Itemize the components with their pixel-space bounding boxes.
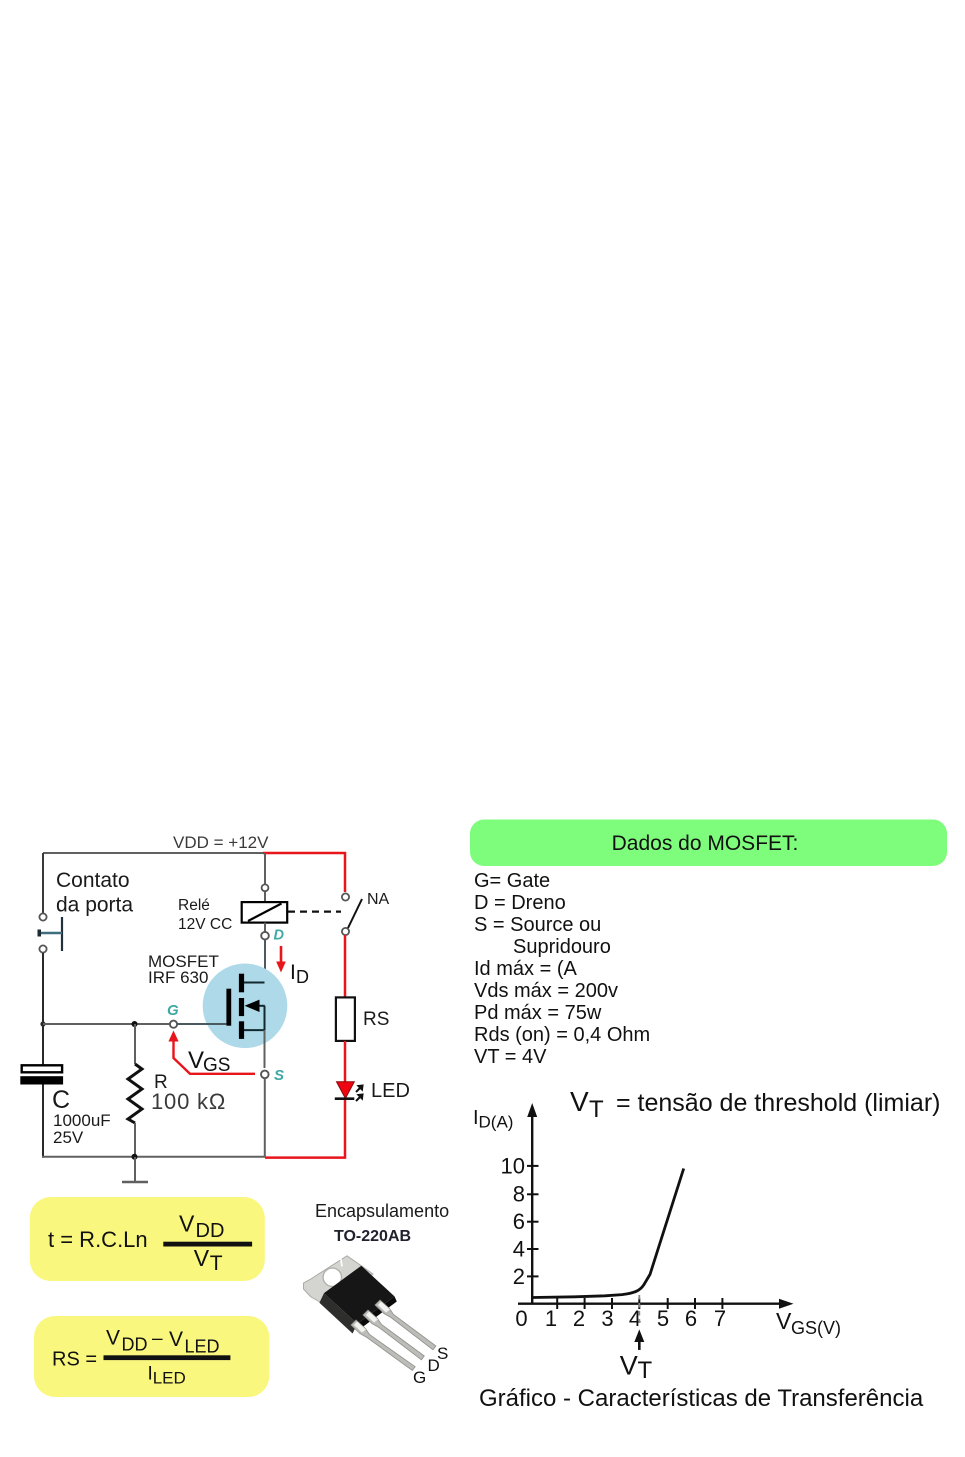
wire source down [264,1030,266,1068]
junction gate wire on left rail [40,1021,45,1026]
svg-text:S: S [274,1067,284,1084]
arrow VT up [634,1329,644,1350]
svg-text:VDD = +12V: VDD = +12V [173,833,269,852]
svg-text:Id máx = (A: Id máx = (A [474,958,577,980]
svg-text:TO-220AB: TO-220AB [334,1228,411,1245]
wire bottom red [265,1098,345,1158]
dashed threshold line [638,1295,640,1323]
svg-text:G: G [413,1368,426,1387]
wire D to mosfet drain [264,940,266,983]
svg-text:V: V [776,1308,792,1334]
mosfet data list [474,870,650,1068]
wire left vertical upper [42,853,44,913]
svg-text:D(A): D(A) [479,1113,514,1132]
node G terminal [170,1021,177,1028]
svg-text:D: D [296,967,309,987]
formula t = R.C.Ln VDD/VT [48,1211,252,1276]
svg-text:t = R.C.Ln: t = R.C.Ln [48,1227,148,1252]
svg-text:I: I [290,961,296,984]
legs [351,1300,436,1371]
svg-text:Encapsulamento: Encapsulamento [315,1201,449,1221]
RS red wire from NA [344,935,347,998]
wire cap to bottom [42,1085,44,1158]
svg-text:V: V [179,1211,195,1237]
relay top terminal [262,884,269,891]
svg-text:2: 2 [573,1306,585,1331]
wire left vertical lower (switch to capacitor) [42,953,44,1066]
relay coil K1 [242,902,288,923]
svg-text:LED: LED [153,1369,186,1388]
svg-text:0: 0 [515,1306,527,1331]
junction R bottom [132,1154,138,1160]
svg-text:RS: RS [363,1009,389,1030]
LED D1 [335,1082,363,1101]
pushbutton switch (contato da porta) [38,913,63,952]
package TO-220AB drawing [304,1256,436,1371]
node D terminal [261,932,269,940]
capacitor C1 [20,1065,63,1084]
svg-text:10: 10 [501,1154,525,1179]
mosfet body circle [203,964,288,1049]
svg-text:Contato: Contato [56,869,130,892]
svg-text:C: C [52,1086,70,1114]
svg-text:7: 7 [714,1306,726,1331]
svg-text:2: 2 [513,1264,525,1289]
svg-text:3: 3 [601,1306,613,1331]
resistor RS [336,997,355,1041]
svg-text:G= Gate: G= Gate [474,870,550,892]
x tick labels [515,1306,726,1331]
svg-text:RS =: RS = [52,1348,97,1370]
wire gate horizontal [43,1023,170,1025]
svg-text:S = Source ou: S = Source ou [474,914,601,936]
wire top red [263,853,345,892]
svg-text:5: 5 [657,1306,669,1331]
banner Dados do MOSFET [470,820,947,867]
svg-text:V: V [188,1047,204,1074]
svg-text:V: V [194,1245,210,1271]
svg-text:Relé: Relé [178,897,210,914]
svg-text:12V CC: 12V CC [178,916,232,933]
junction R top [132,1021,138,1027]
resistor R zigzag [128,1024,142,1157]
svg-text:D = Dreno: D = Dreno [474,892,566,914]
transfer curve [533,1169,684,1298]
wire bottom gray [42,1156,266,1158]
svg-text:GS(V): GS(V) [791,1318,841,1338]
svg-text:Vds máx = 200v: Vds máx = 200v [474,980,618,1002]
NA contact [342,893,362,935]
svg-text:V: V [169,1328,183,1351]
svg-text:8: 8 [513,1182,525,1207]
svg-text:1: 1 [545,1306,557,1331]
svg-text:4: 4 [513,1237,525,1262]
svg-text:T: T [589,1096,604,1123]
formula box t [30,1197,265,1281]
svg-text:100 kΩ: 100 kΩ [151,1089,226,1114]
y axis [527,1103,537,1304]
relay wire from top rail [264,853,266,903]
svg-text:IRF 630: IRF 630 [148,968,208,987]
arrow VGS red [168,1031,255,1074]
formula box RS [34,1316,269,1397]
x ticks [557,1298,722,1309]
dashed link relay to NA [288,910,341,912]
svg-text:6: 6 [685,1306,697,1331]
svg-text:V: V [570,1086,589,1117]
svg-text:da porta: da porta [56,894,133,917]
svg-text:G: G [167,1002,179,1019]
svg-text:Dados do MOSFET:: Dados do MOSFET: [612,832,799,855]
svg-text:Rds (on) = 0,4 Ohm: Rds (on) = 0,4 Ohm [474,1024,650,1046]
arrow ID red [276,946,286,973]
body front face [324,1266,395,1324]
node S terminal [261,1071,269,1079]
svg-text:Pd máx = 75w: Pd máx = 75w [474,1002,602,1024]
svg-text:T: T [638,1357,653,1384]
svg-text:DD: DD [196,1220,225,1242]
svg-text:4: 4 [629,1306,641,1331]
relay to D wire [264,923,266,932]
y tick labels [501,1154,525,1290]
svg-text:V: V [620,1351,638,1381]
svg-text:= tensão de threshold (limiar): = tensão de threshold (limiar) [616,1089,940,1117]
wire G to gate [177,1023,226,1025]
wire top gray [43,852,264,854]
svg-text:T: T [210,1252,223,1275]
svg-text:6: 6 [513,1209,525,1234]
svg-text:DD: DD [122,1335,148,1355]
svg-text:S: S [437,1344,448,1363]
svg-text:D: D [274,928,285,944]
x axis [518,1299,794,1309]
wire RS to LED [344,1041,347,1082]
svg-text:25V: 25V [53,1128,84,1147]
svg-text:LED: LED [185,1336,220,1356]
svg-text:NA: NA [367,891,390,908]
mosfet Q1 IRF630 symbol [226,974,264,1039]
svg-text:V: V [106,1327,120,1350]
svg-text:Supridouro: Supridouro [513,936,611,958]
ground [122,1157,148,1182]
svg-text:Gráfico - Características de T: Gráfico - Características de Transferênc… [479,1385,924,1412]
svg-text:LED: LED [371,1080,410,1102]
svg-text:VT = 4V: VT = 4V [474,1046,547,1068]
svg-text:GS: GS [203,1055,230,1076]
metal tab [304,1256,374,1307]
svg-text:–: – [152,1329,163,1350]
wire S to bottom [264,1078,266,1157]
body dark side face [319,1293,357,1333]
y ticks [527,1166,539,1277]
formula RS = (VDD-VLED)/ILED [52,1327,230,1388]
